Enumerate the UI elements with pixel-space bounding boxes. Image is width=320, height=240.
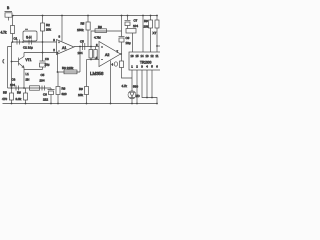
svg-text:C3: C3 xyxy=(45,57,49,61)
junction dots xyxy=(11,15,158,105)
resistor R10 xyxy=(150,16,152,53)
svg-text:204: 204 xyxy=(40,79,45,83)
diode VD1 xyxy=(130,92,135,97)
svg-text:VD: VD xyxy=(136,94,141,98)
svg-text:10k: 10k xyxy=(78,93,83,97)
capacitor C4 bars xyxy=(16,86,19,91)
resistor Rb horizontal xyxy=(126,29,136,34)
wire bias drop x86.5 xyxy=(86,60,88,104)
svg-text:560: 560 xyxy=(133,85,138,89)
op-amp A2 xyxy=(99,42,121,67)
svg-text:A2: A2 xyxy=(105,53,109,57)
svg-text:104: 104 xyxy=(133,24,138,28)
svg-text:(: ( xyxy=(3,58,5,63)
svg-text:222: 222 xyxy=(43,98,48,102)
resistor R7 xyxy=(90,47,92,60)
op-amp A1 xyxy=(57,40,75,55)
capacitor C1 xyxy=(17,40,20,45)
svg-text:4.7k: 4.7k xyxy=(122,84,128,88)
svg-text:3.3k: 3.3k xyxy=(16,97,22,101)
svg-text:C5: C5 xyxy=(41,73,45,77)
svg-text:C1: C1 xyxy=(14,37,18,41)
wire a1 output y46.5 xyxy=(74,46,91,48)
svg-text:R6: R6 xyxy=(98,25,102,29)
svg-text:C7: C7 xyxy=(134,19,138,23)
resistor R9 10k xyxy=(85,87,89,95)
svg-text:4.7k: 4.7k xyxy=(1,31,7,35)
svg-text:161514131211: 161514131211 xyxy=(131,54,159,58)
svg-text:20k: 20k xyxy=(46,28,51,32)
wire R6 feedback loop xyxy=(91,31,122,47)
svg-text:2: 2 xyxy=(53,48,55,52)
svg-text:R8: R8 xyxy=(62,87,66,91)
capacitor C2 xyxy=(29,40,32,45)
resistor R6 4.7M xyxy=(95,29,107,33)
wire ic pin2 down xyxy=(136,70,138,104)
capacitor C7 coupling xyxy=(83,43,85,50)
wire ic pin4 down xyxy=(146,70,148,98)
resistor R3.3k xyxy=(25,88,27,104)
resistor Rout xyxy=(120,61,124,68)
wire ic pin3 down xyxy=(142,70,157,104)
wire ic pin1 down xyxy=(131,70,133,104)
svg-text:R5: R5 xyxy=(81,22,85,26)
capacitor C10 electrolytic top xyxy=(125,16,131,29)
svg-text:123456: 123456 xyxy=(131,65,158,69)
wire collector stub xyxy=(23,53,25,57)
wire emitter to C3 xyxy=(24,69,43,71)
svg-text:R5: R5 xyxy=(3,91,7,95)
wire pi-filter y88 xyxy=(8,87,52,89)
svg-text:R9: R9 xyxy=(79,87,83,91)
svg-text:A1: A1 xyxy=(62,46,66,50)
wire a2 out chain x121.5 xyxy=(122,16,133,79)
svg-text:VT1: VT1 xyxy=(26,58,32,62)
svg-text:R6: R6 xyxy=(17,91,21,95)
svg-text:C5: C5 xyxy=(80,40,84,44)
resistor R2 xyxy=(42,16,44,53)
svg-text:C2 10μ: C2 10μ xyxy=(23,46,33,50)
capacitor C6 electrolytic xyxy=(48,88,55,104)
svg-text:10k: 10k xyxy=(144,25,149,29)
wire a1 lower input y52.5 xyxy=(24,52,57,54)
svg-text:8: 8 xyxy=(59,35,61,39)
svg-text:S-H: S-H xyxy=(26,36,32,40)
svg-text:104: 104 xyxy=(10,83,15,87)
svg-text:3: 3 xyxy=(53,38,55,42)
wire xt stub xyxy=(157,45,160,47)
capacitor C5 bars xyxy=(42,86,45,91)
resistor R470 xyxy=(11,88,13,104)
diode VD1 LED circle xyxy=(128,91,136,99)
transistor VT1 xyxy=(12,57,25,89)
resistor R3 xyxy=(64,70,77,74)
terminal mark xyxy=(114,62,117,66)
svg-text:150k: 150k xyxy=(77,28,84,32)
wire top supply rail xyxy=(12,15,157,17)
wire ic pin5 down xyxy=(151,70,153,98)
svg-text:10μ: 10μ xyxy=(126,41,131,45)
capacitor C3 electrolytic on x42.5 xyxy=(40,53,46,62)
svg-text:4.7M: 4.7M xyxy=(94,36,101,40)
svg-text:B: B xyxy=(7,6,10,10)
svg-text:L1: L1 xyxy=(26,72,30,76)
module box S-H xyxy=(23,31,37,41)
svg-text:470: 470 xyxy=(2,97,7,101)
wire ic pin14 supply xyxy=(142,16,144,53)
wire a2 input xyxy=(91,46,99,48)
resistor R620 xyxy=(57,72,59,104)
wire feedback y72 xyxy=(58,53,81,73)
wire bottom ground rail xyxy=(3,103,158,105)
wire feedback drop x80 xyxy=(79,47,81,73)
IC U1 TR1300 xyxy=(129,52,161,70)
svg-text:C9: C9 xyxy=(126,36,130,40)
wire to ic pin16 xyxy=(132,33,134,52)
svg-text:R9: R9 xyxy=(144,19,148,23)
svg-text:R2: R2 xyxy=(46,23,50,27)
wire a1 power pin8 xyxy=(61,16,63,42)
svg-text:LM358: LM358 xyxy=(90,71,104,76)
crystal XT xyxy=(156,16,158,53)
microphone BM xyxy=(5,12,13,21)
svg-text:C6: C6 xyxy=(43,93,47,97)
wire signal y42 xyxy=(13,41,57,43)
resistor R1 xyxy=(11,26,15,34)
svg-text:C3: C3 xyxy=(12,78,16,82)
svg-text:···: ··· xyxy=(25,27,28,31)
svg-text:4: 4 xyxy=(112,62,114,66)
wire a2 power pin4 xyxy=(110,61,112,104)
inductor L1 xyxy=(30,86,40,90)
svg-text:XT: XT xyxy=(153,31,157,35)
wire mic drop xyxy=(12,16,14,43)
capacitor C9 electrolytic xyxy=(119,36,125,38)
wire a2 lower input y59.5 xyxy=(87,59,100,61)
svg-text:2H: 2H xyxy=(26,78,30,82)
svg-text:620: 620 xyxy=(62,92,67,96)
capacitor C8 block xyxy=(95,47,97,60)
wire left pair verticals xyxy=(8,42,12,88)
resistor R5 150k xyxy=(87,16,89,47)
svg-text:R3 220k: R3 220k xyxy=(62,66,74,70)
